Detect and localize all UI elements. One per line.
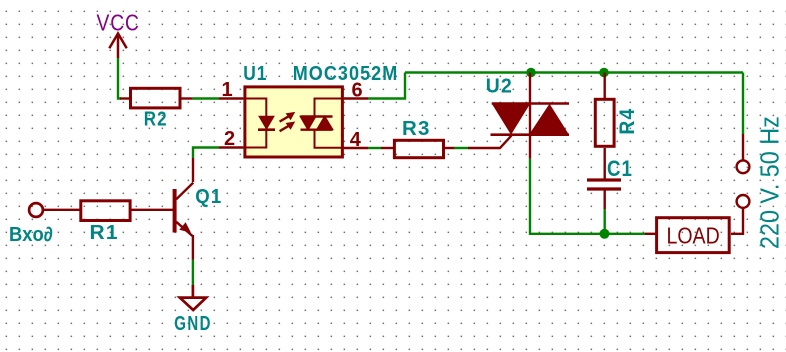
wire Q1 emitter to GND [192,260,194,287]
resistor R4 pin top [604,73,606,99]
wire U1 pin2 to Q1 collector [193,148,219,159]
load box LOAD [657,218,730,253]
terminal upper pin [742,134,744,160]
wire U1 pin6 to AC rail [368,73,405,99]
resistor R2 pin right [181,97,192,99]
resistor R2 [131,88,181,108]
resistor R4 pin bottom [604,148,606,179]
wire AC rail to upper terminal [742,73,744,135]
U1 internal triac [301,99,345,148]
input terminal Bxod [29,203,43,217]
resistor R3 [394,140,443,157]
transistor Q1 [175,158,194,260]
svg-text:1: 1 [222,79,233,101]
svg-text:LOAD: LOAD [667,223,720,249]
triac U2 gate [468,136,512,149]
svg-text:R1: R1 [90,221,119,243]
resistor R4 [595,99,614,146]
wire R3 to U2 gate [454,147,468,149]
terminal circle upper [737,160,750,173]
svg-text:MOC3052M: MOC3052M [293,63,399,85]
resistor R1 [81,201,130,221]
U1 pin 6 [344,97,368,99]
svg-text:R3: R3 [402,117,431,140]
svg-text:R2: R2 [144,107,168,130]
svg-text:R4: R4 [615,108,639,135]
wire terminal to R1 [44,209,81,211]
svg-text:Q1: Q1 [195,187,222,209]
svg-text:Bxo∂: Bxo∂ [9,224,53,246]
capacitor C1 [587,180,621,209]
U1 light arrows [280,112,296,131]
U1 internal LED [243,99,275,148]
svg-text:4: 4 [350,129,362,151]
svg-text:U2: U2 [486,75,513,97]
wire LOAD to lower terminal [731,208,743,234]
wire R2 to U1 pin 1 [192,97,219,99]
wire AC top rail [405,71,743,73]
load LOAD pin left [645,233,656,235]
svg-text:2: 2 [224,128,235,150]
svg-text:GND: GND [174,312,212,335]
svg-text:220 V. 50 Hz: 220 V. 50 Hz [756,116,784,249]
wire U2 MT2 to bottom rail [530,159,645,234]
junction R4 top [599,68,609,78]
U1 pin 2 [219,146,243,148]
resistor R3 pin left [381,147,393,149]
wire R1 to Q1 base [132,209,175,211]
U1 pin 1 [219,97,243,99]
junction bottom [600,229,610,239]
U1 pin 4 [344,147,368,149]
wire VCC to R2 [118,58,121,99]
power symbol VCC [109,34,126,59]
terminal circle lower [737,195,750,208]
svg-text:C1: C1 [607,157,633,181]
wire C1 to bottom rail [604,209,606,234]
resistor R3 pin right [444,147,455,149]
ground GND [180,285,206,310]
svg-text:U1: U1 [243,63,267,86]
junction U2 top [526,68,536,78]
wire U1 pin4 to R3 [368,147,381,149]
triac U2 [491,73,570,159]
optocoupler U1 body [245,87,343,157]
svg-text:VCC: VCC [97,11,140,36]
resistor R2 pin left [120,97,129,99]
